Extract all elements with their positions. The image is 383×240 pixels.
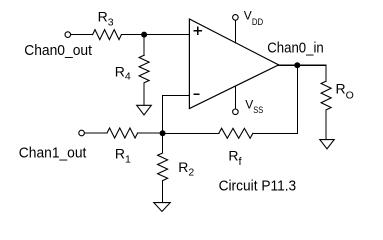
wire bbox=[121, 34, 144, 36]
ground (R4) bbox=[137, 105, 152, 115]
wire (output to node) bbox=[279, 64, 298, 66]
svg-text:RO: RO bbox=[336, 80, 354, 101]
svg-text:R4: R4 bbox=[115, 64, 131, 83]
node A (R3 / R4 / + input junction) bbox=[141, 32, 147, 38]
svg-text:VSS: VSS bbox=[245, 97, 263, 115]
resistor R4 bbox=[139, 35, 149, 106]
resistor Rf bbox=[219, 128, 253, 138]
VDD terminal bbox=[233, 15, 239, 43]
VSS terminal bbox=[233, 86, 239, 114]
op-amp - input mark bbox=[194, 93, 199, 95]
terminal Chan0_out bbox=[65, 32, 71, 38]
resistor R3 bbox=[93, 30, 122, 40]
node B (R1 / R2 / Rf / - input junction) bbox=[160, 130, 166, 136]
resistor R2 bbox=[158, 133, 168, 202]
svg-text:Chan0_out: Chan0_out bbox=[24, 42, 93, 59]
svg-text:R3: R3 bbox=[98, 8, 114, 28]
resistor R1 bbox=[107, 128, 138, 138]
wire bbox=[163, 132, 219, 134]
wire (+ input) bbox=[144, 34, 189, 36]
op-amp U1 bbox=[189, 19, 278, 109]
op-amp + input mark bbox=[194, 27, 201, 34]
svg-text:Circuit P11.3: Circuit P11.3 bbox=[219, 178, 297, 195]
terminal Chan1_out bbox=[79, 130, 85, 136]
svg-text:Chan0_in: Chan0_in bbox=[267, 40, 323, 57]
resistor RO bbox=[321, 81, 331, 140]
ground (R2) bbox=[154, 203, 170, 212]
wire bbox=[71, 34, 93, 36]
wire bbox=[85, 132, 107, 134]
wire (feedback to output node) bbox=[253, 65, 298, 133]
svg-text:Chan1_out: Chan1_out bbox=[19, 145, 87, 162]
wire (inverting input) bbox=[163, 95, 190, 133]
svg-text:R2: R2 bbox=[178, 159, 194, 179]
svg-text:Rf: Rf bbox=[228, 147, 242, 168]
svg-text:VDD: VDD bbox=[244, 9, 264, 27]
ground (RO) bbox=[320, 140, 334, 149]
wire bbox=[138, 132, 163, 134]
node Chan0_in (output junction) bbox=[294, 62, 300, 68]
wire (node to RO) bbox=[297, 65, 326, 81]
svg-text:R1: R1 bbox=[115, 146, 131, 166]
